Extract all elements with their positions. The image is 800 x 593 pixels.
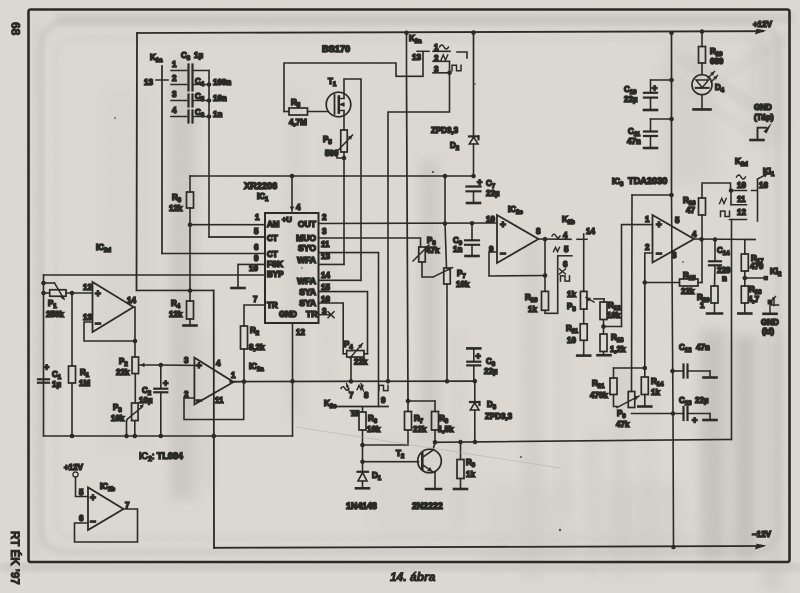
op IC1 XR2206 box bbox=[265, 213, 319, 323]
svg-text:14: 14 bbox=[127, 296, 136, 305]
capacitor C8 bbox=[473, 348, 475, 361]
svg-text:7: 7 bbox=[253, 295, 258, 304]
potentiometer P6 bbox=[419, 247, 426, 262]
wire Ki2 bbox=[745, 277, 764, 279]
wire to P2 bbox=[134, 341, 136, 357]
svg-text:IC2b: IC2b bbox=[100, 482, 115, 493]
wire R7 R8 top to +12 column bbox=[407, 401, 409, 412]
svg-text:10k: 10k bbox=[456, 280, 470, 289]
resistor R11 bbox=[580, 324, 587, 341]
ground under C9 bbox=[466, 255, 479, 258]
wire R3 to pin1 bbox=[189, 208, 191, 225]
wire T2 emitter bbox=[433, 471, 435, 473]
node -12V bottom rail bbox=[214, 546, 763, 548]
svg-text:13: 13 bbox=[83, 313, 92, 322]
svg-text:8,2k: 8,2k bbox=[249, 343, 265, 352]
svg-text:14: 14 bbox=[586, 227, 595, 236]
svg-text:15: 15 bbox=[351, 411, 359, 418]
wire P8 wiper to R12 bbox=[603, 299, 605, 302]
ground under R11 bbox=[577, 354, 590, 357]
svg-text:R6: R6 bbox=[368, 414, 378, 425]
svg-text:R15: R15 bbox=[683, 271, 696, 282]
svg-text:GND: GND bbox=[754, 103, 772, 112]
svg-text:R21: R21 bbox=[592, 379, 605, 390]
ground under R9 bbox=[454, 488, 467, 491]
terminal GND(ki) bbox=[768, 300, 773, 305]
svg-text:2: 2 bbox=[172, 74, 177, 83]
svg-text:+12V: +12V bbox=[64, 463, 84, 472]
potentiometer P3 bbox=[132, 403, 139, 421]
wire capacitor bus to pin5 bbox=[208, 71, 210, 238]
svg-text:10: 10 bbox=[567, 336, 576, 345]
svg-text:1k: 1k bbox=[567, 290, 576, 299]
LED D4 bbox=[692, 75, 712, 95]
wire R16 bottom to R15 bbox=[701, 215, 703, 283]
svg-text:n: n bbox=[722, 274, 727, 283]
svg-text:8: 8 bbox=[364, 391, 369, 400]
wire pin4 +U bbox=[291, 176, 293, 211]
svg-text:1µ: 1µ bbox=[52, 380, 61, 389]
wire R6 bottom node bbox=[362, 430, 364, 445]
svg-text:1M: 1M bbox=[79, 379, 90, 388]
wire rail down to D2 bbox=[471, 30, 476, 35]
svg-text:9: 9 bbox=[381, 396, 386, 405]
svg-text:XR2206: XR2206 bbox=[244, 181, 277, 191]
svg-text:47n: 47n bbox=[627, 137, 641, 146]
resistor R4 bbox=[187, 301, 194, 319]
resistor R2 bbox=[241, 326, 248, 349]
svg-text:11: 11 bbox=[321, 240, 330, 249]
svg-text:8: 8 bbox=[536, 227, 541, 236]
svg-text:68: 68 bbox=[9, 22, 23, 36]
svg-text:1,5k: 1,5k bbox=[438, 425, 454, 434]
potentiometer P7 bbox=[444, 268, 451, 284]
ground under C7 bbox=[467, 202, 480, 205]
svg-text:3: 3 bbox=[172, 90, 177, 99]
svg-text:1k: 1k bbox=[466, 470, 475, 479]
wire pin5 CT bbox=[209, 236, 265, 238]
wire +U to OUT bridge bbox=[444, 176, 446, 224]
svg-text:P8: P8 bbox=[567, 302, 576, 313]
svg-text:5: 5 bbox=[675, 216, 680, 225]
wire IC2c output bbox=[539, 238, 572, 240]
svg-text:22µ: 22µ bbox=[484, 367, 498, 376]
resistor R9 bbox=[460, 442, 462, 459]
ground under C11 bbox=[644, 147, 657, 150]
svg-text:IC2c: IC2c bbox=[508, 205, 523, 216]
node +12V top rail bbox=[137, 31, 763, 33]
svg-text:+: + bbox=[196, 361, 202, 372]
resistor R5 bbox=[289, 108, 308, 115]
ground under R14 bbox=[638, 405, 651, 408]
svg-text:12k: 12k bbox=[169, 310, 183, 319]
ground under D4 bbox=[694, 108, 711, 111]
svg-text:1: 1 bbox=[255, 213, 260, 222]
svg-text:3: 3 bbox=[322, 227, 327, 236]
svg-text:22k: 22k bbox=[681, 287, 695, 296]
svg-text:C12: C12 bbox=[679, 343, 692, 354]
ground under D1 bbox=[356, 487, 369, 490]
svg-text:+: + bbox=[90, 493, 96, 504]
ground right of C12 bbox=[704, 376, 717, 379]
svg-text:WFA: WFA bbox=[297, 276, 316, 286]
svg-text:9: 9 bbox=[254, 254, 259, 263]
svg-text:6: 6 bbox=[254, 243, 259, 252]
svg-text:AM: AM bbox=[267, 220, 280, 229]
svg-text:TDA2030: TDA2030 bbox=[628, 176, 667, 186]
svg-text:C6: C6 bbox=[195, 108, 205, 119]
wire P6 to P7 wiper bbox=[422, 262, 433, 277]
svg-text:C13: C13 bbox=[679, 396, 692, 407]
resistor R13 bbox=[603, 327, 605, 335]
wire feedback column down bbox=[644, 283, 646, 369]
resistor R10 bbox=[542, 291, 549, 310]
svg-text:22µ: 22µ bbox=[486, 189, 500, 198]
wire contact12 column (square) bbox=[731, 220, 733, 440]
wire T1 drain to pin14 bbox=[344, 79, 361, 280]
wire IC2a output bbox=[234, 381, 245, 383]
wire pin7 TR to R2 bbox=[244, 305, 265, 326]
svg-text:K1a: K1a bbox=[150, 53, 163, 64]
svg-text:2N2222: 2N2222 bbox=[412, 501, 443, 511]
svg-text:10µ: 10µ bbox=[139, 396, 153, 405]
svg-text:−: − bbox=[95, 319, 101, 330]
svg-text:4: 4 bbox=[172, 106, 177, 115]
svg-text:10n: 10n bbox=[213, 94, 227, 103]
svg-text:R8: R8 bbox=[439, 414, 449, 425]
svg-text:4,7: 4,7 bbox=[748, 295, 760, 304]
svg-text:IC3: IC3 bbox=[612, 177, 624, 188]
svg-text:12: 12 bbox=[737, 208, 746, 217]
svg-text:22µ: 22µ bbox=[695, 396, 709, 405]
wire +12 column down bbox=[407, 76, 409, 401]
svg-text:13: 13 bbox=[412, 53, 421, 62]
switch K1a pole bbox=[161, 66, 163, 254]
resistor R17 bbox=[741, 254, 748, 271]
svg-text:6: 6 bbox=[563, 260, 568, 269]
wire P5 to pin13 bbox=[343, 152, 345, 264]
resistor R6 bbox=[362, 407, 364, 413]
node IC2a output bus bbox=[230, 380, 475, 383]
potentiometer P8 bbox=[580, 291, 587, 309]
svg-text:BYP: BYP bbox=[267, 270, 284, 279]
svg-text:10k: 10k bbox=[607, 311, 621, 320]
svg-text:7: 7 bbox=[349, 391, 354, 400]
resistor R7 bbox=[407, 430, 409, 445]
svg-text:+: + bbox=[44, 362, 49, 372]
wire R10 to contact5 bbox=[545, 256, 558, 313]
svg-text:(ki): (ki) bbox=[762, 327, 774, 336]
potentiometer P2 bbox=[132, 357, 139, 374]
svg-text:16: 16 bbox=[759, 181, 768, 190]
svg-text:+: + bbox=[692, 415, 697, 425]
svg-text:+: + bbox=[500, 220, 506, 231]
svg-text:5: 5 bbox=[79, 488, 84, 497]
resistor R16 bbox=[699, 198, 706, 215]
svg-text:+: + bbox=[163, 378, 168, 388]
resistor R12 bbox=[600, 302, 607, 320]
node pin10 BYP long line bbox=[44, 274, 266, 276]
svg-text:CT: CT bbox=[267, 234, 278, 243]
svg-text:TR: TR bbox=[267, 301, 278, 310]
svg-text:680: 680 bbox=[710, 57, 724, 66]
wire pin12 GND down bbox=[292, 323, 294, 381]
svg-text:T1: T1 bbox=[328, 77, 337, 88]
svg-text:470k: 470k bbox=[590, 391, 608, 400]
ground FSK bbox=[232, 287, 245, 290]
zener diode D3 ZPD3,3 bbox=[474, 381, 476, 402]
svg-text:OUT: OUT bbox=[298, 219, 317, 229]
svg-text:ZPD3,3: ZPD3,3 bbox=[431, 126, 459, 135]
svg-text:10: 10 bbox=[737, 181, 746, 190]
svg-text:−: − bbox=[500, 249, 506, 260]
svg-text:12k: 12k bbox=[169, 204, 183, 213]
svg-text:+: + bbox=[476, 351, 481, 361]
svg-text:3: 3 bbox=[672, 251, 677, 260]
svg-text:4: 4 bbox=[216, 359, 221, 368]
svg-text:11: 11 bbox=[737, 195, 746, 204]
capacitor C13 bbox=[671, 411, 676, 416]
svg-text:15: 15 bbox=[321, 283, 330, 292]
capacitor C12 bbox=[670, 369, 675, 374]
svg-text:5: 5 bbox=[564, 245, 569, 254]
svg-text:GND: GND bbox=[761, 318, 779, 327]
svg-text:5: 5 bbox=[254, 227, 259, 236]
wire pin3 MUO to P6 bbox=[319, 238, 421, 247]
wire P9 column bbox=[631, 195, 634, 392]
svg-text:K2d: K2d bbox=[735, 157, 748, 168]
svg-text:1n: 1n bbox=[453, 245, 462, 254]
svg-text:1: 1 bbox=[700, 301, 705, 310]
svg-text:10k: 10k bbox=[367, 425, 381, 434]
svg-text:3: 3 bbox=[184, 356, 189, 365]
svg-text:14. ábra: 14. ábra bbox=[390, 570, 436, 584]
resistor R8 bbox=[432, 412, 439, 431]
svg-text:P7: P7 bbox=[457, 269, 466, 280]
crease artifact bbox=[296, 427, 560, 468]
ground right of C13 bbox=[704, 419, 717, 422]
resistor R14 bbox=[644, 368, 646, 377]
wire pin15 SYA to P4 right bbox=[319, 292, 368, 354]
wire R3R4 column bbox=[189, 225, 191, 301]
svg-text:1k: 1k bbox=[651, 388, 660, 397]
svg-text:MUO: MUO bbox=[296, 233, 316, 243]
svg-text:13: 13 bbox=[144, 78, 153, 87]
svg-text:1n: 1n bbox=[213, 110, 222, 119]
svg-text:−: − bbox=[90, 517, 96, 528]
svg-text:+: + bbox=[95, 289, 101, 300]
svg-text:4: 4 bbox=[692, 230, 697, 239]
resistor R3 bbox=[189, 176, 191, 192]
svg-text:ZPD3,3: ZPD3,3 bbox=[485, 412, 513, 421]
wire R16 top to K2d contact10 bbox=[702, 183, 731, 198]
resistor R1 bbox=[71, 293, 73, 366]
wire IC2d feedback bbox=[84, 322, 135, 341]
wire IC2c feedback bbox=[489, 252, 545, 276]
svg-text:−12V: −12V bbox=[752, 530, 772, 539]
svg-text:4,7M: 4,7M bbox=[289, 118, 307, 127]
wire pin2 OUT line bbox=[319, 222, 498, 225]
svg-text:10: 10 bbox=[249, 264, 258, 273]
svg-text:SYA: SYA bbox=[299, 298, 316, 308]
svg-text:1: 1 bbox=[645, 215, 650, 224]
svg-text:C4: C4 bbox=[195, 77, 205, 88]
svg-text:+: + bbox=[656, 220, 662, 231]
wire pin6 CT from K1a bbox=[162, 253, 265, 255]
resistor R19 bbox=[701, 32, 703, 47]
resistor R21 bbox=[613, 368, 615, 378]
resistor R18 bbox=[744, 278, 746, 286]
switch K2c pole bar bbox=[337, 406, 388, 408]
wire TDA output bbox=[694, 238, 755, 241]
wire R15 to pin2 node bbox=[645, 282, 680, 284]
svg-text:4: 4 bbox=[563, 231, 568, 240]
node -12 distribution line bbox=[44, 435, 293, 437]
svg-text:GND: GND bbox=[279, 310, 297, 319]
svg-text:−: − bbox=[656, 249, 662, 260]
svg-text:BS170: BS170 bbox=[322, 44, 350, 54]
ground under C10 bbox=[644, 109, 657, 112]
wire to pin5 bbox=[76, 477, 89, 497]
svg-text:14: 14 bbox=[321, 271, 330, 280]
wire IC2a power column to -12V rail bbox=[213, 290, 215, 547]
potentiometer P4 bbox=[343, 353, 347, 355]
svg-text:47: 47 bbox=[686, 206, 695, 215]
wire pin11 SYO down to K2c bbox=[319, 253, 379, 407]
capacitor C2 bbox=[160, 365, 162, 389]
wire rail to IC2a pin4 bbox=[137, 289, 214, 291]
svg-text:1N4148: 1N4148 bbox=[346, 501, 377, 511]
svg-text:22k: 22k bbox=[354, 358, 368, 367]
ground under R18 bbox=[738, 312, 751, 315]
svg-text:1k: 1k bbox=[528, 305, 537, 314]
svg-text:22k: 22k bbox=[116, 368, 130, 377]
ground under T2 bbox=[426, 488, 441, 491]
svg-text:12: 12 bbox=[83, 283, 92, 292]
svg-text:R14: R14 bbox=[651, 377, 664, 388]
wire output to R17 bbox=[745, 240, 755, 255]
svg-text:P4: P4 bbox=[344, 340, 353, 351]
svg-text:47k: 47k bbox=[616, 420, 630, 429]
svg-text:FSK: FSK bbox=[267, 260, 283, 269]
wire P2 wiper line (pin3) bbox=[140, 364, 161, 366]
svg-text:IC2a: IC2a bbox=[249, 362, 264, 373]
potentiometer P1 bbox=[44, 282, 55, 284]
svg-text:470: 470 bbox=[750, 262, 764, 271]
wire R21 R14 top line bbox=[614, 367, 645, 369]
wire P7 column bbox=[445, 224, 447, 269]
wire K2a contacts 2+3 to square bus bbox=[449, 61, 451, 73]
svg-text:2: 2 bbox=[645, 243, 650, 252]
svg-text:250k: 250k bbox=[46, 310, 64, 319]
ground under R20 bbox=[707, 312, 722, 315]
svg-text:R1: R1 bbox=[80, 368, 90, 379]
svg-text:R2: R2 bbox=[250, 326, 260, 337]
wire C1 column bbox=[43, 275, 45, 436]
diode D1 1N4148 bbox=[362, 462, 364, 472]
potentiometer P9 bbox=[628, 392, 635, 408]
resistor R15 bbox=[680, 279, 699, 286]
svg-text:SYA: SYA bbox=[299, 287, 316, 297]
wire pin3 TR arrow bbox=[319, 314, 330, 316]
svg-text:C14: C14 bbox=[717, 246, 730, 257]
svg-text:1: 1 bbox=[172, 60, 177, 69]
resistor R20 bbox=[711, 286, 718, 303]
svg-text:−: − bbox=[196, 396, 202, 407]
svg-text:(Táp): (Táp) bbox=[754, 113, 774, 122]
node square output line to K2d bbox=[435, 439, 732, 442]
wire IC2d output bbox=[134, 307, 136, 341]
svg-text:2: 2 bbox=[322, 213, 327, 222]
svg-text:10k: 10k bbox=[111, 414, 125, 423]
svg-text:500: 500 bbox=[325, 149, 339, 158]
svg-text:1µ: 1µ bbox=[194, 51, 203, 60]
wire R11 column bbox=[583, 309, 585, 324]
svg-text:6: 6 bbox=[79, 514, 84, 523]
svg-text:TR: TR bbox=[306, 309, 317, 319]
svg-text:100n: 100n bbox=[213, 78, 231, 87]
svg-text:1: 1 bbox=[231, 371, 236, 380]
capacitor C9 bbox=[471, 223, 473, 240]
svg-text:12: 12 bbox=[296, 328, 305, 337]
svg-text:1,2k: 1,2k bbox=[610, 345, 626, 354]
svg-text:RT ÉK ’97: RT ÉK ’97 bbox=[8, 531, 21, 585]
ground under R13 bbox=[598, 354, 611, 357]
capacitor C14 bbox=[714, 240, 716, 262]
svg-text:SYO: SYO bbox=[298, 243, 316, 253]
svg-text:CT: CT bbox=[267, 250, 278, 259]
wire pin9 FSK to ground bbox=[238, 264, 265, 288]
svg-text:K2c: K2c bbox=[324, 399, 337, 410]
svg-text:C5: C5 bbox=[195, 92, 205, 103]
wire left rail branch down bbox=[136, 33, 139, 290]
svg-text:D2: D2 bbox=[450, 141, 460, 152]
svg-text:K2b: K2b bbox=[562, 215, 575, 226]
wire IC2a feedback bbox=[184, 382, 244, 420]
wire P2-P3 column bbox=[134, 374, 136, 403]
wire V+ column through TDA bbox=[632, 194, 672, 196]
node +U supply line bbox=[190, 175, 474, 177]
svg-text:4: 4 bbox=[296, 203, 301, 212]
ground under R4 bbox=[189, 319, 191, 326]
wire T1 source to P5 bbox=[343, 111, 345, 131]
wire pin16 SYA to P4 left bbox=[319, 303, 344, 354]
svg-text:+12V: +12V bbox=[753, 20, 773, 29]
svg-text:D3: D3 bbox=[487, 400, 497, 411]
svg-text:+U: +U bbox=[282, 215, 292, 224]
svg-text:+: + bbox=[652, 83, 657, 93]
svg-text:WFA: WFA bbox=[297, 255, 316, 265]
svg-text:R13: R13 bbox=[611, 333, 624, 344]
wire IC2b feedback bbox=[75, 509, 138, 542]
wire R12 bottom node bbox=[603, 320, 605, 327]
svg-text:22µ: 22µ bbox=[624, 95, 638, 104]
potentiometer P5 bbox=[341, 130, 348, 152]
wire R21 bottom to P9 wiper bbox=[614, 395, 618, 407]
wire TDA pin2 loop bbox=[645, 253, 653, 283]
ground over C8 bbox=[467, 347, 480, 350]
svg-text:47k: 47k bbox=[426, 246, 440, 255]
svg-text:22k: 22k bbox=[413, 425, 427, 434]
wire gate loop bbox=[284, 63, 407, 112]
wire rail to K2a bbox=[404, 31, 409, 36]
svg-text:10: 10 bbox=[486, 215, 495, 224]
svg-text:11: 11 bbox=[215, 396, 224, 405]
wire T2 collector bbox=[433, 442, 435, 450]
wire TDA pin1 input bbox=[622, 225, 653, 327]
svg-text:IC1: IC1 bbox=[257, 192, 269, 203]
capacitor C11 bbox=[669, 117, 674, 122]
